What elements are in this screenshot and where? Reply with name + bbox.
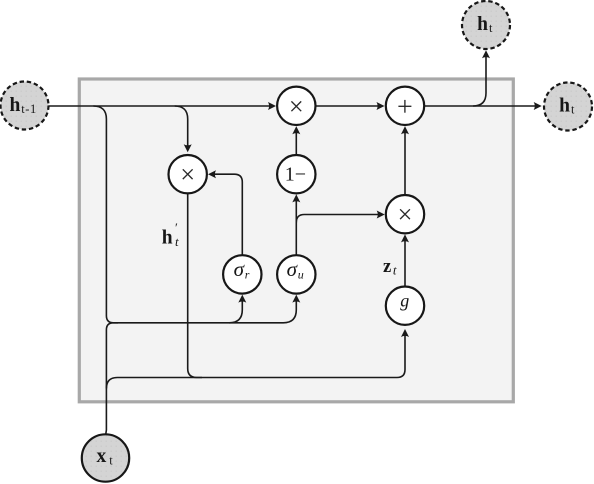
svg-text:1−: 1−	[285, 163, 306, 185]
wire one-minus up into mult1	[295, 131, 297, 155]
svg-text:σ: σ	[234, 257, 246, 281]
wire h't from mult2 down, merging into g feed line	[188, 194, 202, 378]
op-node g	[386, 287, 424, 325]
node h_t top	[462, 1, 510, 49]
glyph plus	[398, 100, 411, 113]
op-node mult3	[386, 195, 424, 233]
node h_t-1	[1, 82, 49, 130]
arrowhead into g from below	[401, 329, 409, 337]
wire plus to h_t right	[424, 105, 536, 107]
svg-text:x: x	[97, 446, 107, 467]
op-node sigma_u	[277, 255, 315, 293]
GRU cell box	[79, 79, 513, 402]
arrowhead into plus from left	[377, 102, 385, 110]
svg-text:σ: σ	[287, 257, 299, 281]
wire g up into mult3	[404, 240, 406, 287]
wire x_t branch to g feed line, up into g	[106, 334, 405, 389]
arrowhead into plus from below	[401, 126, 409, 134]
op-node mult2	[169, 155, 207, 193]
wire branch up to h_t top	[473, 56, 486, 107]
arrowhead into h_t top	[482, 50, 490, 58]
arrowhead into mult3 from left	[377, 211, 385, 219]
svg-text:t: t	[393, 263, 397, 278]
wire sigma_r output to mult2	[214, 174, 242, 255]
wire mult3 up into plus	[404, 131, 406, 195]
op-node plus	[386, 87, 424, 125]
svg-text:h: h	[477, 14, 488, 35]
node h_t right	[544, 83, 592, 131]
glyph times mult2	[183, 169, 193, 179]
wire h branch down at x=106 to sigma feed line, into sigma_u	[93, 106, 296, 323]
svg-text:h: h	[559, 95, 570, 116]
svg-text:t: t	[489, 21, 493, 35]
node x_t	[82, 434, 129, 481]
wire x_t up, merging into sigma feed line	[106, 323, 118, 434]
arrowhead into mult1 from below	[292, 126, 300, 134]
svg-text:g: g	[400, 291, 409, 311]
arrowhead into sigma_r	[238, 295, 246, 303]
svg-text:h: h	[10, 95, 21, 116]
svg-text:h: h	[162, 228, 173, 249]
wire h branch down into mult2	[175, 106, 188, 147]
arrowhead into one-minus	[292, 194, 300, 202]
arrowhead into mult2 from right	[208, 170, 216, 178]
svg-text:u: u	[298, 268, 304, 282]
svg-text:′: ′	[175, 220, 178, 235]
arrowhead into mult3 from below	[401, 234, 409, 242]
wire mult1 to plus	[316, 105, 380, 107]
op-node one-minus	[277, 155, 315, 193]
svg-text:r: r	[245, 268, 250, 282]
wire sigma_u branch right into mult3	[296, 215, 379, 223]
arrowhead into mult2 from top	[184, 144, 192, 152]
arrowhead into h_t right	[534, 102, 542, 110]
svg-text:t: t	[109, 453, 113, 467]
glyph times mult3	[400, 209, 410, 219]
wire h_{t-1} to mult1	[49, 105, 271, 107]
wire branch up into sigma_r	[229, 300, 242, 323]
arrowhead into mult1 from left	[268, 102, 276, 110]
op-node sigma_r	[223, 255, 261, 293]
svg-text:t: t	[571, 102, 575, 116]
svg-text:z: z	[383, 257, 391, 277]
op-node mult1	[277, 87, 315, 125]
svg-text:t-1: t-1	[21, 102, 37, 116]
arrowhead into sigma_u	[292, 295, 300, 303]
svg-text:t: t	[175, 234, 179, 249]
wire sigma_u output up to one-minus	[295, 200, 297, 256]
glyph times mult1	[291, 101, 301, 111]
